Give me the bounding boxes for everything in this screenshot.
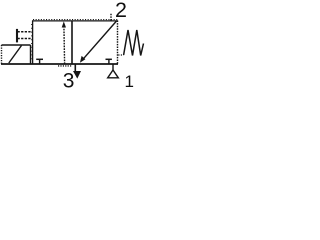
right position blocked port T xyxy=(106,59,112,64)
position divider wire xyxy=(71,21,73,65)
return spring xyxy=(118,30,143,56)
port 3 stub wire xyxy=(74,64,76,72)
svg-text:2: 2 xyxy=(115,0,127,22)
solenoid coil box xyxy=(2,45,31,64)
port 2 label xyxy=(115,0,127,22)
port 1 stub wire xyxy=(112,64,114,70)
left position blocked port T xyxy=(36,59,43,64)
left position flow path arrow (1 to 2) xyxy=(62,21,66,64)
port 1 label xyxy=(125,72,134,91)
valve body outline (two-position 3/2 valve) xyxy=(1,20,118,64)
svg-text:3: 3 xyxy=(63,69,75,92)
port 2 stub wire xyxy=(110,13,112,21)
port 3 exhaust arrowhead xyxy=(73,71,81,79)
svg-text:1: 1 xyxy=(125,72,134,91)
port 3 label xyxy=(63,69,75,92)
right position flow path arrow (2 to 3 exhaust) xyxy=(80,21,117,63)
port 1 supply triangle xyxy=(108,70,119,78)
piston edge texture xyxy=(58,65,72,67)
solenoid diagonal stroke xyxy=(9,46,22,64)
solenoid connector upper wire xyxy=(18,31,33,33)
solenoid electrical connector bar xyxy=(16,29,18,43)
solenoid connector lower wire xyxy=(18,38,33,40)
